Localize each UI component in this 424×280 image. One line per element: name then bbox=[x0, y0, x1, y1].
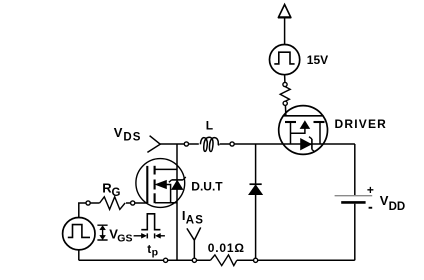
wire 15V source to terminal bbox=[284, 75, 286, 83]
driver MOSFET circle bbox=[279, 106, 328, 155]
wire pulse gen bottom to rail bbox=[78, 250, 80, 260]
driver body lead bbox=[291, 128, 305, 133]
terminal node on rail right of L bbox=[230, 142, 234, 146]
svg-text:L: L bbox=[206, 118, 213, 132]
VDS probe bbox=[147, 136, 160, 153]
wire rail to battery bbox=[354, 144, 356, 195]
tp pulse annotation right arrow bbox=[156, 233, 161, 238]
driver channel bar (drain side) bbox=[314, 121, 325, 123]
svg-text:V: V bbox=[114, 125, 123, 140]
squiggle wire bbox=[280, 87, 290, 102]
DUT circle bbox=[136, 159, 185, 208]
svg-text:D.U.T: D.U.T bbox=[191, 179, 223, 193]
svg-text:DRIVER: DRIVER bbox=[335, 117, 388, 131]
pulse generator circle bbox=[63, 218, 95, 250]
top rail wire (left of inductor) bbox=[160, 143, 199, 145]
driver diode zener wings bbox=[309, 137, 315, 152]
resistor RG leads bbox=[90, 202, 130, 204]
wire battery to bottom rail bbox=[354, 204, 356, 261]
DUT drain lead bbox=[155, 168, 177, 170]
DUT channel bar (body) bbox=[154, 180, 156, 190]
svg-text:DS: DS bbox=[123, 131, 141, 143]
inductor L coil bbox=[200, 137, 219, 151]
DUT gate terminal node bbox=[131, 201, 135, 205]
DUT drain-source wire bbox=[176, 144, 178, 260]
terminal node diode branch bbox=[254, 258, 258, 262]
tp pulse annotation left arrow bbox=[134, 235, 142, 237]
terminal node on rail left of L bbox=[184, 142, 188, 146]
pulse source 15V bbox=[270, 45, 300, 75]
terminal node IAS bbox=[192, 258, 196, 262]
wire arrow to 15V source bbox=[284, 19, 286, 45]
battery bottom plate bbox=[341, 201, 365, 204]
DUT body arrow bbox=[156, 181, 166, 189]
DUT body diode (zener) bbox=[172, 181, 183, 190]
resistor 0.01 ohm zigzag bbox=[210, 255, 236, 266]
DUT source lead bbox=[155, 202, 177, 204]
label - bbox=[369, 207, 373, 209]
svg-text:DD: DD bbox=[389, 201, 406, 213]
svg-text:GS: GS bbox=[117, 232, 132, 244]
DUT gate plate bbox=[146, 166, 148, 203]
terminal node bottom left bbox=[164, 258, 168, 262]
driver body arrow bbox=[301, 121, 310, 128]
resistor RG zigzag bbox=[100, 197, 126, 210]
DUT gate lead bbox=[135, 202, 148, 204]
driver drain lead bbox=[319, 123, 321, 145]
input arrow (gate supply) bbox=[278, 5, 291, 18]
tp pulse edge tick left bbox=[146, 233, 148, 238]
bottom rail bbox=[79, 259, 355, 261]
driver gate lead bbox=[284, 105, 287, 116]
battery top plate bbox=[335, 195, 373, 197]
terminal node RG left bbox=[86, 201, 90, 205]
freewheel diode bbox=[250, 183, 262, 185]
driver body diode bbox=[301, 139, 311, 150]
terminal node bbox=[283, 82, 287, 86]
driver gate plate bbox=[283, 115, 324, 117]
VGS measure arrow bbox=[97, 225, 107, 240]
svg-text:+: + bbox=[367, 183, 374, 197]
DUT channel bar (source) bbox=[154, 193, 156, 203]
driver channel bar (source side) bbox=[285, 121, 296, 123]
terminal node (driver gate) bbox=[283, 101, 287, 105]
svg-text:15V: 15V bbox=[307, 53, 328, 67]
driver source lead bbox=[290, 123, 292, 145]
svg-text:0.01Ω: 0.01Ω bbox=[208, 241, 245, 255]
svg-text:p: p bbox=[152, 246, 158, 258]
DUT channel bar (drain) bbox=[154, 166, 156, 175]
svg-text:G: G bbox=[112, 187, 121, 199]
DUT body lead bbox=[166, 185, 170, 203]
svg-text:V: V bbox=[380, 193, 389, 208]
tp pulse edge tick right bbox=[154, 233, 156, 238]
DUT diode zener wings bbox=[169, 177, 186, 182]
IAS probe bbox=[187, 227, 201, 259]
freewheel diode branch wire bbox=[255, 144, 257, 260]
svg-text:AS: AS bbox=[186, 214, 204, 226]
tp pulse waveform bbox=[141, 214, 160, 230]
top rail wire (right of inductor) bbox=[220, 143, 355, 145]
wire pulse gen top to RG bbox=[79, 203, 86, 218]
